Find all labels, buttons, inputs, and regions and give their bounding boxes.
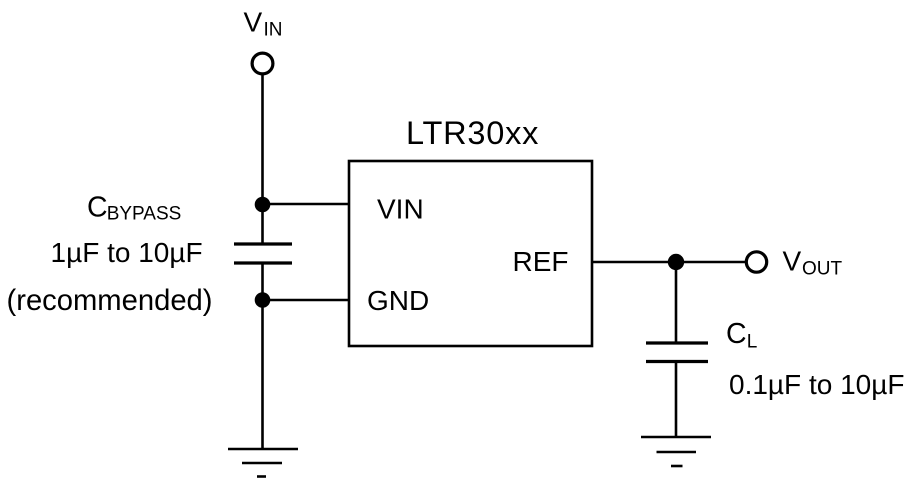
svg-text:C: C xyxy=(87,191,108,223)
svg-text:(recommended): (recommended) xyxy=(7,285,213,317)
svg-text:L: L xyxy=(747,332,758,353)
wire junction to GND pin xyxy=(263,299,351,302)
label VIN net xyxy=(244,7,283,41)
wire junction to ground xyxy=(261,300,264,449)
svg-text:V: V xyxy=(783,246,802,277)
capacitor CL xyxy=(646,343,708,362)
svg-text:BYPASS: BYPASS xyxy=(107,204,182,225)
svg-text:0.1µF to 10µF: 0.1µF to 10µF xyxy=(729,369,904,400)
capacitor CBYPASS xyxy=(234,244,292,263)
ground right xyxy=(641,437,711,466)
wire cap to GND junction xyxy=(261,263,264,301)
ground left xyxy=(228,449,298,477)
svg-text:C: C xyxy=(726,318,747,350)
svg-text:REF: REF xyxy=(513,246,569,277)
svg-text:LTR30xx: LTR30xx xyxy=(406,115,539,151)
wire VIN vertical xyxy=(261,75,264,245)
op-amp U1 LTR30xx box xyxy=(349,161,592,346)
svg-text:VIN: VIN xyxy=(377,194,424,225)
label CL xyxy=(726,318,757,353)
terminal VOUT xyxy=(746,252,766,272)
label VOUT net xyxy=(783,246,843,280)
svg-text:IN: IN xyxy=(264,20,283,41)
label CBYPASS xyxy=(87,191,181,224)
wire VIN to box xyxy=(263,203,351,206)
wire REF to VOUT xyxy=(591,261,746,264)
node junction GND xyxy=(255,292,271,308)
svg-text:V: V xyxy=(244,7,263,38)
wire junction to CL xyxy=(675,262,678,343)
svg-text:GND: GND xyxy=(367,285,429,316)
node junction REF xyxy=(668,254,684,270)
svg-text:1µF to 10µF: 1µF to 10µF xyxy=(51,237,203,268)
node junction VIN xyxy=(255,197,271,213)
svg-text:OUT: OUT xyxy=(802,259,843,280)
wire CL to ground xyxy=(675,362,678,438)
terminal VIN xyxy=(252,53,273,74)
